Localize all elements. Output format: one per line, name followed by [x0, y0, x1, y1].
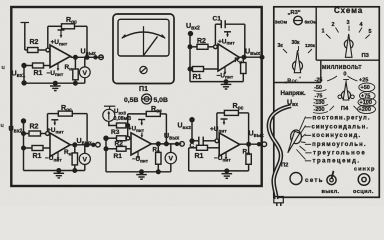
wire: circuit 4 generator to R3	[109, 121, 117, 125]
junction: circuit 4 output-Rn	[156, 141, 161, 146]
junction: circuit 5 input-C	[189, 138, 194, 143]
tick right of P4	[354, 106, 359, 111]
junction: circuit 3 output-Rn	[72, 142, 77, 147]
fan line to postoyan	[300, 117, 306, 131]
resistor R1 (circuit 3)	[32, 146, 43, 151]
fan line to sinusoid	[301, 126, 306, 134]
resistor Roc (circuit 5 feedback)	[224, 110, 238, 115]
terminal Uvyx (circuit 2)	[260, 55, 265, 60]
underline -100	[313, 105, 328, 107]
wire: circuit 3 input bus	[23, 121, 25, 171]
resistor R2 (circuit 4)	[117, 136, 127, 141]
op-amp DA2 (circuit 2)	[218, 44, 240, 71]
selector knob P3 hub	[344, 40, 353, 49]
selector knob P4 hub	[341, 91, 350, 100]
oscilloscope connector	[358, 174, 370, 186]
resistor Rn (circuit 3)	[72, 153, 77, 165]
meter P1 scale arc	[123, 32, 164, 38]
junction: circuit 2 ground node	[224, 79, 229, 84]
wire: circuit 5 R1 loop	[189, 147, 197, 149]
wire: circuit 3 R2 wire	[24, 133, 30, 135]
panel divider vertical R3|Schema	[315, 7, 317, 60]
tick position 1	[326, 34, 331, 39]
underline -200	[313, 112, 328, 114]
wire: circuit 4 bottom bus	[106, 171, 171, 173]
wire: circuit 5 bottom bus	[189, 170, 249, 172]
meter P1 center tick	[143, 26, 145, 32]
tick 120k	[308, 49, 312, 53]
node: circuit 2 inverting input	[214, 45, 218, 49]
terminal Uvx2 (circuit 3)	[21, 118, 26, 123]
resistor Roc (circuit 3 feedback)	[58, 111, 72, 116]
op-amp DA1 (circuit 1)	[50, 45, 71, 68]
voltmeter PV3 (circuit 4)	[165, 152, 176, 163]
meter P1 adjuster screw	[140, 66, 147, 73]
junction: circuit 3 ground node	[56, 168, 61, 173]
junction: circuit 5 output node	[246, 142, 251, 147]
terminal Uvx2 (circuit 2)	[188, 31, 193, 36]
panel divider under R3 box	[274, 82, 321, 84]
circuit 4 generator T symbol	[104, 105, 115, 107]
meter P1 outer case	[113, 14, 174, 84]
wire: circuit 3 bottom bus	[24, 170, 85, 172]
resistor Rn (circuit 1)	[73, 69, 78, 80]
oval +50	[359, 83, 375, 92]
ground (circuit 4)	[141, 172, 143, 175]
control panel border frame	[274, 7, 380, 198]
op-amp DA5 (circuit 5)	[219, 133, 240, 156]
ground (circuit 1)	[54, 83, 56, 86]
wire: circuit 4 riser and feedback	[126, 124, 128, 126]
wire: circuit 2 R1 wire	[190, 68, 193, 70]
resistor R3 (circuit 4)	[117, 123, 127, 128]
ground (circuit 3)	[58, 171, 60, 174]
tick 30k	[298, 46, 300, 51]
junction: circuit 4 bus-Rn	[156, 169, 161, 174]
wire: circuit 2 input bus	[189, 34, 191, 82]
power -Upit symbol (circuit 5)	[225, 152, 227, 159]
junction: circuit 4 riser-R3	[125, 123, 130, 128]
node: circuit 5 inverting input	[215, 139, 219, 143]
wire: circuit 4 left bus	[105, 138, 107, 172]
resistor Rn (circuit 4)	[156, 152, 161, 164]
schematic block border frame	[11, 7, 261, 186]
junction: circuit 4 ground node	[139, 169, 144, 174]
wire: circuit 2 output	[240, 56, 261, 58]
tick +25	[348, 76, 358, 81]
junction: circuit 2 bus-R2	[188, 44, 193, 49]
node: circuit 4 inverting input	[126, 136, 130, 140]
selector knob Roc hub	[293, 61, 303, 71]
fan line to pryamougol	[301, 141, 306, 144]
power +Upit symbol (circuit 1)	[58, 29, 65, 31]
ground (circuit 2)	[225, 82, 227, 85]
junction: circuit 2 bus-R1	[188, 67, 193, 72]
fan line to trapetseid	[297, 150, 306, 160]
tick position 2	[336, 28, 339, 33]
wire: circuit 1 feedback loop	[47, 26, 49, 48]
potentiometer R3 knob	[294, 16, 303, 25]
capacitor C1 (circuit 2 feedback)	[220, 20, 222, 28]
resistor Rn (circuit 2)	[241, 63, 246, 74]
junction: circuit 4 output-feedback	[164, 141, 169, 146]
wire: circuit 1 bottom bus	[24, 82, 85, 84]
meter P1 needle	[144, 37, 158, 56]
resistor R1 (circuit 4)	[117, 146, 127, 151]
junction: circuit 1 ground node	[53, 81, 58, 86]
wire: circuit 3 R1 wire	[24, 147, 33, 149]
resistor R1 (circuit 2)	[193, 67, 204, 72]
mains lamp set'	[290, 173, 302, 185]
junction: circuit 1 output to V	[85, 55, 90, 60]
resistor R2 (circuit 3)	[29, 131, 41, 136]
junction: circuit 1 output terminal dot	[93, 55, 97, 59]
tick position 4	[359, 28, 362, 33]
junction: circuit 4 bus-R1	[104, 146, 109, 151]
junction: circuit 5 ground node	[224, 168, 229, 173]
resistor Roc (circuit 1 feedback)	[62, 24, 75, 29]
tick 0 mark	[343, 79, 349, 81]
terminal input dot (circuit 4)	[103, 136, 108, 141]
wire: circuit 2 Rn leads	[242, 57, 244, 62]
terminal Uvx2 (circuit 5)	[189, 117, 194, 122]
voltmeter PV2 (circuit 3)	[79, 153, 90, 164]
resistor Roc (circuit 4 feedback)	[146, 111, 160, 116]
range knob between 0,5V and 5,0V	[142, 94, 152, 104]
power +Upit symbol (circuit 3)	[51, 119, 58, 121]
wire: circuit 3 output	[70, 144, 95, 146]
panel divider under Schema box	[316, 59, 379, 61]
terminal Uvyx (circuit 4)	[180, 142, 185, 147]
fan line to treugol	[300, 146, 306, 151]
toggle switch vykl	[327, 175, 336, 184]
power +Upit symbol (circuit 4)	[138, 119, 145, 121]
junction: circuit 3 bus-R1	[21, 146, 26, 151]
wire: circuit 2 feedback loop	[214, 24, 216, 45]
knob P4 side screw left	[338, 95, 342, 99]
wire: circuit 5 input drop	[191, 120, 193, 141]
terminal Uvyx (circuit 5)	[262, 142, 267, 147]
power +Upit symbol (circuit 5)	[221, 118, 228, 120]
resistor R2 (circuit 2)	[197, 44, 208, 49]
resistor R1 (circuit 1)	[33, 63, 44, 68]
tick left of P4	[330, 106, 335, 111]
wire: circuit 4 R2 wire	[106, 137, 117, 139]
junction: circuit 1 bus-Rn	[73, 81, 78, 86]
resistor Rn (circuit 5)	[246, 154, 251, 164]
junction: circuit 2 output node	[242, 55, 247, 60]
wire: circuit 2 bottom bus	[190, 81, 243, 83]
junction: circuit 5 terminal dot	[257, 142, 261, 146]
wire: circuit 5 output	[240, 143, 262, 145]
power -Upit symbol (circuit 1)	[57, 63, 59, 71]
selector knob P4 pointer	[343, 82, 349, 100]
oval +100	[358, 98, 376, 107]
junction: circuit 3 bus-Rn	[72, 168, 77, 173]
oval +200	[358, 105, 376, 114]
terminal Uvyx (circuit 1)	[99, 55, 104, 60]
wire: circuit 5 Rn leads	[248, 144, 250, 154]
underline -75	[314, 98, 327, 100]
voltmeter PV1 (circuit 1)	[79, 67, 90, 78]
circuit 1 common rail T symbol	[21, 22, 30, 24]
wire: circuit 4 voltmeter leads	[170, 144, 172, 153]
terminal Uvx1 upper	[21, 63, 26, 68]
tick position 5	[365, 35, 370, 39]
input cable cord	[269, 106, 291, 199]
cable plug	[274, 197, 284, 203]
rotary switch P2 pointer	[288, 131, 300, 153]
junction: circuit 4 terminal dot	[175, 142, 179, 146]
wire: circuit 3 voltmeter leads	[84, 145, 86, 154]
node: circuit 3 inverting input	[46, 132, 50, 136]
knob P4 side screw right	[351, 95, 355, 99]
wire: circuit 5 feedback loop	[216, 113, 218, 139]
selector knob Roc pointer	[294, 50, 300, 72]
wire: circuit 4 output	[151, 143, 181, 145]
selector knob P3 pointer	[345, 34, 352, 57]
wire: circuit 1 R1 wire	[24, 65, 33, 67]
power -Upit symbol (circuit 4)	[137, 151, 139, 158]
underline -50	[314, 90, 327, 92]
wire: circuit 1 Rn leads	[74, 57, 76, 69]
wire: circuit 3 Rn leads	[74, 145, 76, 153]
capacitor C (circuit 5)	[198, 137, 200, 145]
terminal Uvx1 lower	[21, 80, 26, 85]
panel divider vertical millivolt left	[320, 60, 322, 82]
wire: circuit 2 R2 wire	[190, 46, 197, 48]
op-amp DA4 (circuit 4)	[131, 133, 151, 155]
wire: circuit 3 feedback loop	[47, 114, 49, 132]
op-amp DA3 (circuit 3)	[50, 133, 70, 157]
tick -25	[327, 76, 337, 81]
junction: circuit 3 output-V	[85, 142, 90, 147]
meter P1 zero line	[143, 32, 145, 56]
power +Upit symbol (circuit 2)	[224, 31, 231, 33]
wire: circuit 1 R2 input wire	[25, 49, 28, 51]
fan line to kosinusoid	[301, 134, 306, 138]
generator G1 (circuit 4)	[103, 109, 115, 121]
wire: circuit 1 input port link	[23, 66, 25, 83]
oval +75	[360, 92, 376, 101]
junction: circuit 3 terminal dot	[91, 143, 95, 147]
ground (circuit 5)	[226, 171, 228, 174]
resistor R2 (circuit 1)	[28, 48, 39, 53]
junction: circuit 1 output to Rn	[73, 55, 78, 60]
wire: circuit 4 R1 wire	[106, 148, 117, 150]
wire: circuit 1 output	[71, 56, 103, 58]
wire: circuit 4 Rn leads	[157, 144, 159, 153]
meter P1 inner window	[118, 19, 169, 56]
power -Upit symbol (circuit 3)	[57, 152, 59, 160]
junction: circuit 3 bus-R2	[21, 131, 26, 136]
meter P1 scale end tick right	[162, 35, 166, 39]
node: circuit 1 inverting input	[46, 48, 50, 52]
terminal Uvyx (circuit 3)	[96, 143, 101, 148]
tick 3k	[283, 49, 287, 53]
power -Upit symbol (circuit 2)	[224, 67, 226, 75]
rotary switch P2 hub	[291, 130, 302, 144]
wire: circuit 1 voltmeter leads	[84, 57, 86, 67]
meter P1 scale end tick left	[122, 35, 126, 39]
resistor R1 (circuit 5)	[197, 145, 208, 150]
tick position 3	[348, 26, 350, 32]
wire: circuit 5 C leads	[192, 140, 199, 142]
